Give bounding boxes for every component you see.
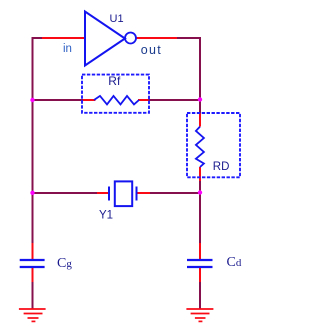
- svg-text:out: out: [141, 43, 162, 57]
- wire: RD bottom red stub: [199, 167, 201, 181]
- svg-text:in: in: [63, 43, 72, 55]
- wire: right vertical rail upper: [199, 37, 201, 113]
- wire: Y1 row right maroon: [150, 192, 200, 194]
- svg-text:RD: RD: [213, 161, 230, 173]
- wire: Rf left red stub: [83, 99, 96, 101]
- wire: Cg to ground maroon: [32, 282, 34, 309]
- wire: Rf right red stub: [138, 99, 149, 101]
- wire: Cg bottom red stub: [32, 267, 34, 282]
- wire: Cd to ground maroon: [199, 282, 201, 309]
- capacitor Cd top plate: [187, 259, 213, 261]
- resistor RD zigzag: [196, 127, 204, 167]
- resistor Rf zigzag: [94, 96, 139, 105]
- op-amp U1 output bubble: [125, 33, 136, 44]
- node junction dot left-Rf: [30, 98, 34, 102]
- resistor Rf dashed box: [82, 75, 149, 113]
- wire: Rf row right maroon: [149, 99, 201, 101]
- node junction dot left-Y1: [30, 191, 34, 195]
- svg-text:Rf: Rf: [108, 74, 121, 88]
- wire: left vertical rail: [32, 37, 34, 243]
- wire: Cd bottom red stub: [199, 267, 201, 282]
- resistor RD dashed box: [187, 113, 240, 177]
- wire: inverter output red stub: [136, 37, 177, 39]
- wire: top-left corner horizontal segment: [32, 37, 43, 39]
- wire: output to right corner: [177, 37, 200, 39]
- crystal Y1 left plate: [108, 187, 110, 201]
- svg-text:Y1: Y1: [99, 210, 113, 222]
- crystal Y1 right plate: [136, 187, 138, 201]
- svg-text:Cg: Cg: [57, 256, 72, 271]
- ground left: [19, 309, 46, 321]
- capacitor Cg top plate: [20, 259, 45, 261]
- svg-text:Cd: Cd: [227, 255, 242, 270]
- wire: inverter input red stub: [42, 37, 84, 39]
- wire: Cd top red stub: [199, 243, 201, 260]
- wire: Rf row left maroon: [33, 99, 84, 101]
- wire: Y1 left red stub: [97, 192, 109, 194]
- wire: Cg top red stub: [32, 243, 34, 260]
- wire: Y1 row left maroon: [33, 192, 98, 194]
- node junction dot right-Rf: [198, 97, 202, 101]
- crystal Y1 body rect: [115, 181, 132, 206]
- capacitor Cg bottom plate: [20, 266, 45, 268]
- wire: Y1 right red stub: [137, 192, 150, 194]
- wire: RD top red stub: [199, 113, 201, 127]
- wire: right vertical rail middle: [199, 181, 201, 243]
- op-amp U1 inverter triangle: [85, 12, 125, 66]
- node junction dot right-Y1: [198, 190, 202, 194]
- ground right: [186, 309, 213, 321]
- capacitor Cd bottom plate: [187, 266, 213, 268]
- svg-text:U1: U1: [110, 13, 124, 25]
